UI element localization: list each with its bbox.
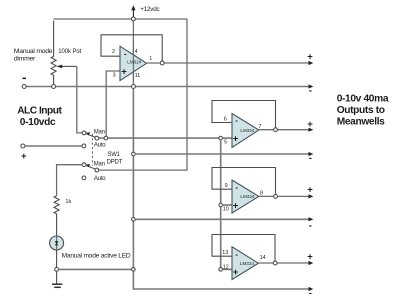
svg-text:2: 2 [112, 49, 115, 55]
wire wiper to switch Man1 [77, 66, 82, 132]
node switch output junction [104, 136, 108, 140]
svg-text:4: 4 [135, 49, 138, 55]
svg-text:LM324: LM324 [240, 261, 254, 266]
switch S1 lever [86, 134, 96, 138]
switch S1 Man contact [82, 131, 86, 135]
svg-text:-: - [235, 116, 238, 125]
node op1 pin11 ground [131, 85, 135, 89]
svg-text:+: + [307, 119, 313, 130]
ground bottom rail arrowhead [309, 287, 314, 291]
node LED ground junction [55, 268, 59, 272]
svg-text:0-10v 40ma: 0-10v 40ma [337, 93, 389, 104]
svg-text:+: + [307, 52, 313, 63]
op-amp U1A power line overlay [132, 46, 134, 80]
svg-text:Manual mode active LED: Manual mode active LED [62, 252, 131, 259]
potentiometer R1 100k body [51, 21, 56, 85]
svg-text:100k Pot: 100k Pot [58, 49, 81, 55]
switch S1 Auto contact [82, 144, 86, 148]
node op4 output junction [273, 261, 277, 265]
op-amp U1A feedback loop [101, 35, 162, 61]
wire op2 output [259, 129, 310, 131]
svg-text:Auto: Auto [94, 142, 106, 148]
resistor R2 1k body [54, 196, 59, 236]
pot wiper arrow [56, 65, 76, 69]
svg-text:DPDT: DPDT [107, 159, 123, 165]
svg-text:8: 8 [260, 190, 263, 196]
output 2 minus arrowhead [309, 152, 314, 156]
svg-text:Man: Man [94, 161, 105, 167]
wire signal vertical op2 to op4 [220, 140, 222, 268]
op-amp U1D triangle [232, 247, 258, 280]
wire ground branch to output 3 minus [135, 218, 310, 220]
svg-text:-: - [309, 86, 312, 97]
svg-text:SW1: SW1 [107, 152, 120, 158]
svg-text:LM324: LM324 [127, 60, 141, 65]
output 3 plus arrowhead [309, 194, 314, 198]
DPDT mechanical link dashed [91, 134, 93, 166]
wire op1 pin3 input [106, 71, 120, 136]
node op2 plus input junction [219, 136, 223, 140]
switch S1 lever arrowhead [86, 132, 90, 135]
switch S2 lever [86, 165, 96, 169]
svg-text:3: 3 [113, 73, 116, 79]
terminal pot bottom [52, 85, 56, 89]
svg-text:+: + [307, 251, 313, 262]
wire op3 output [259, 195, 310, 197]
switch S1 common [95, 136, 99, 140]
terminal ALC plus [21, 144, 25, 148]
svg-text:-: - [235, 250, 238, 259]
wire op4 plus input [223, 268, 233, 270]
op-amp U1D feedback loop [212, 235, 275, 262]
node ground branch 2 [132, 218, 136, 222]
switch S2 Auto contact [82, 176, 86, 180]
wire ALC plus to switch Auto1 [25, 145, 82, 147]
op-amp U1B feedback loop [212, 101, 276, 128]
node op4 plus input junction [219, 268, 223, 272]
svg-text:Man: Man [94, 129, 105, 135]
svg-text:5: 5 [224, 140, 227, 146]
svg-text:Manual mode: Manual mode [14, 48, 53, 55]
node +12V rail junction [132, 17, 136, 21]
node op1 output junction [160, 61, 164, 65]
svg-text:0-10vdc: 0-10vdc [20, 117, 56, 128]
label ALC minus sign [22, 78, 26, 80]
ground rail output arrowhead [309, 84, 314, 88]
op-amp U1A power line pins 4-11 [132, 21, 134, 85]
svg-text:+: + [233, 134, 239, 145]
wire +12V top rail [54, 18, 187, 20]
output 1 plus arrowhead [309, 61, 314, 65]
ground symbol [52, 271, 62, 287]
switch S2 lever arrowhead [86, 164, 90, 167]
svg-text:13: 13 [222, 250, 228, 256]
node op2 output junction [274, 128, 278, 132]
svg-text:6: 6 [224, 116, 227, 122]
svg-text:LM324: LM324 [240, 128, 254, 133]
node ground branch LED [132, 268, 136, 272]
node op3 plus input junction [219, 203, 223, 207]
svg-text:12: 12 [223, 264, 229, 270]
wire ground rail [26, 86, 310, 88]
output 4 plus arrowhead [309, 261, 314, 265]
wire signal bus switch to op2 [99, 137, 232, 139]
svg-text:Outputs to: Outputs to [337, 105, 385, 116]
wire +12V drop to switch common 2 [99, 19, 187, 170]
svg-text:dimmer: dimmer [14, 55, 36, 62]
svg-text:1: 1 [149, 56, 152, 62]
op-amp U1C feedback loop [212, 168, 276, 195]
wire op3 plus input [223, 204, 233, 206]
svg-text:-: - [309, 153, 312, 164]
svg-text:+: + [21, 151, 27, 162]
+12V supply arrow [131, 5, 135, 17]
svg-text:-: - [309, 288, 312, 299]
svg-text:-: - [124, 50, 127, 59]
wire S2 Man to resistor [57, 165, 83, 196]
svg-text:+: + [233, 201, 239, 212]
svg-text:LM324: LM324 [240, 194, 254, 199]
svg-text:ALC Input: ALC Input [17, 106, 62, 117]
svg-text:11: 11 [135, 73, 141, 79]
svg-text:9: 9 [225, 183, 228, 189]
switch S2 common [95, 168, 99, 172]
svg-text:+: + [233, 267, 239, 278]
svg-text:+12vdc: +12vdc [140, 6, 159, 13]
output 3 minus arrowhead [309, 217, 314, 221]
terminal ALC minus [22, 85, 26, 89]
svg-text:-: - [309, 220, 312, 231]
svg-text:Meanwells: Meanwells [337, 117, 385, 128]
wire LED to ground node [56, 250, 58, 268]
switch S2 Man contact [82, 163, 86, 167]
svg-text:+: + [307, 185, 313, 196]
wire ground branch to output 2 minus [135, 153, 310, 155]
output 2 plus arrowhead [309, 128, 314, 132]
node op3 output junction [274, 195, 278, 199]
wire LED node to ground bus [58, 268, 131, 270]
svg-text:Auto: Auto [94, 176, 106, 182]
wire op4 output [258, 262, 310, 264]
op-amp U1A triangle [120, 46, 147, 80]
wire ground vertical distribution [133, 88, 310, 289]
op-amp U1C triangle [232, 180, 259, 213]
svg-text:-: - [235, 183, 238, 192]
svg-text:10: 10 [223, 206, 229, 212]
node ground branch 1 [132, 152, 136, 156]
LED D1 [50, 236, 64, 250]
op-amp U1B triangle [232, 114, 259, 148]
svg-text:+: + [121, 66, 127, 77]
svg-text:14: 14 [260, 255, 266, 261]
wire op1 output [147, 62, 310, 64]
svg-text:1k: 1k [65, 199, 71, 205]
